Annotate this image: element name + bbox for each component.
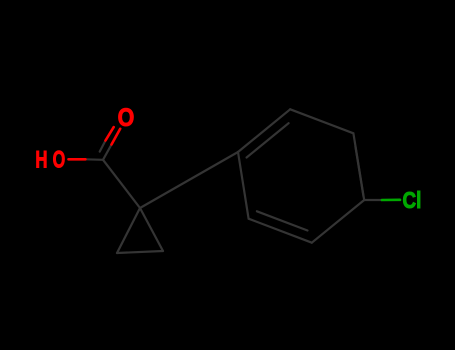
svg-text:H: H bbox=[35, 147, 47, 174]
svg-text:Cl: Cl bbox=[403, 187, 422, 213]
svg-text:O: O bbox=[53, 147, 66, 174]
svg-text:O: O bbox=[118, 104, 135, 132]
